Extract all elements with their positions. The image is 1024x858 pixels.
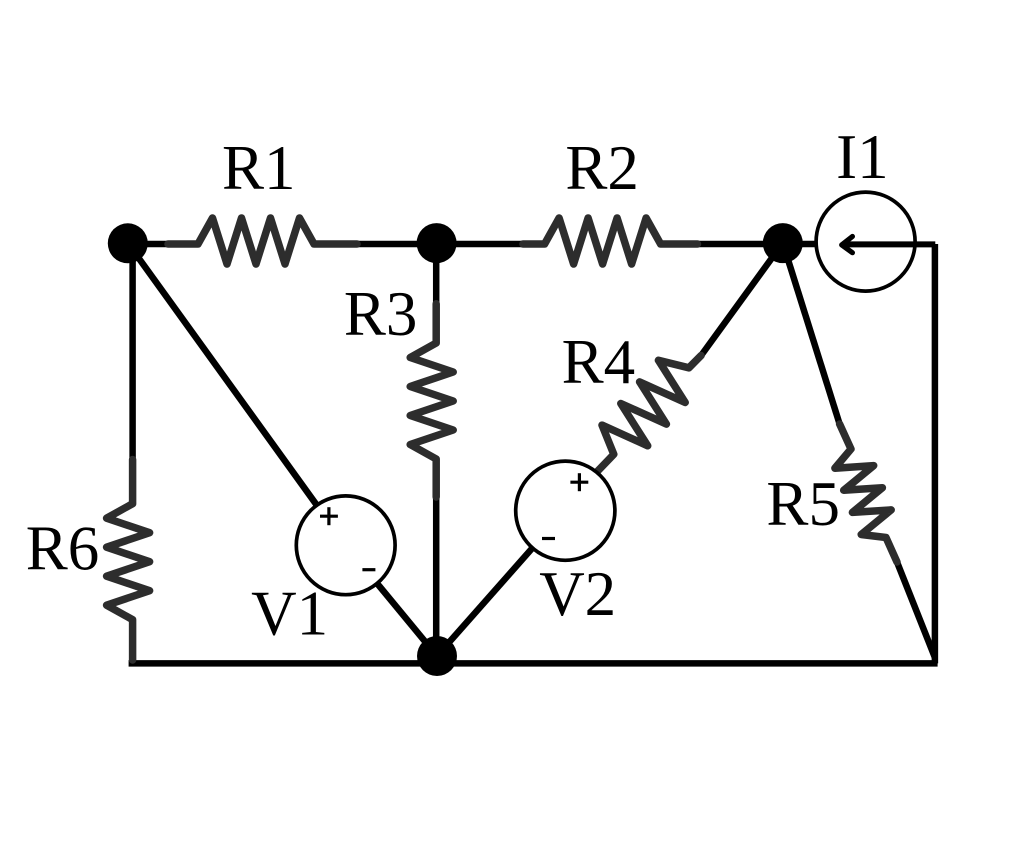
svg-text:V1: V1 — [251, 579, 328, 649]
wire V1 to D — [377, 583, 437, 656]
resistor R5 — [835, 424, 897, 562]
V1 minus sign — [362, 568, 375, 571]
wire C to I1 circle — [783, 241, 817, 248]
wire B down to R3 — [433, 243, 440, 344]
svg-text:R3: R3 — [344, 279, 418, 349]
wire R5 to bottom-right corner — [897, 562, 935, 658]
node C — [763, 223, 803, 263]
resistor R3 — [410, 304, 453, 497]
wire bottom — [129, 660, 938, 667]
node B — [417, 223, 457, 263]
svg-text:R1: R1 — [222, 133, 296, 203]
resistor R2 — [523, 218, 698, 264]
wire R2 to C — [660, 241, 783, 248]
wire right edge vertical — [932, 244, 939, 663]
node A — [108, 223, 148, 263]
svg-text:R5: R5 — [766, 469, 840, 539]
svg-text:R4: R4 — [562, 327, 636, 397]
resistor R4 — [597, 356, 702, 473]
wire top A to R1 — [128, 241, 199, 248]
svg-text:R6: R6 — [26, 514, 100, 584]
wire R4 to C — [701, 243, 783, 356]
wire B to R2 — [437, 241, 546, 248]
wire D to V2 — [437, 548, 533, 656]
V2 plus sign — [570, 473, 588, 491]
wire R6 to bottom — [129, 619, 136, 664]
voltage source V1 — [296, 496, 395, 595]
I1 arrow shaft — [843, 241, 936, 247]
wire C to R5 — [783, 243, 840, 424]
V2 minus sign — [542, 537, 555, 540]
wire A down to R6 — [129, 243, 136, 505]
current source I1 — [816, 192, 915, 291]
wire R1 to B — [313, 241, 437, 248]
I1 arrow head — [842, 237, 853, 253]
svg-text:I1: I1 — [836, 122, 888, 192]
svg-text:R2: R2 — [565, 133, 639, 203]
node D (ground node) — [417, 636, 457, 676]
voltage source V2 — [516, 461, 615, 560]
svg-text:V2: V2 — [539, 559, 616, 629]
wire A to V1 — [128, 243, 317, 505]
resistor R1 — [168, 218, 357, 264]
V1 plus sign — [320, 507, 338, 525]
wire R3 to D — [433, 458, 440, 656]
resistor R6 — [107, 460, 150, 661]
